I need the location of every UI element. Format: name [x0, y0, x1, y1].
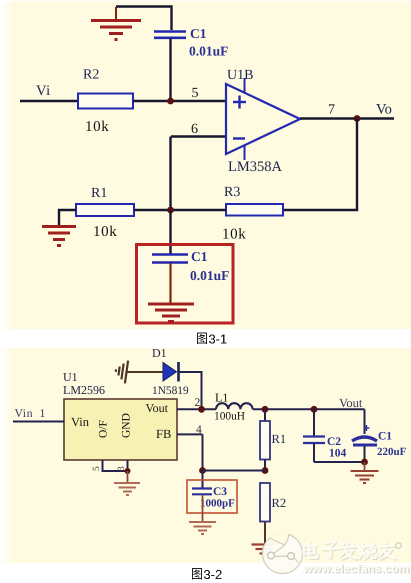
ground GND2 (R1 left)	[42, 227, 76, 246]
svg-text:www.elecfans.com: www.elecfans.com	[302, 561, 409, 575]
svg-text:Vo: Vo	[376, 102, 392, 118]
capacitor C1 (bottom)	[152, 255, 188, 263]
svg-text:7: 7	[328, 103, 335, 118]
capacitor C2	[313, 409, 315, 436]
svg-text:R2: R2	[83, 68, 99, 83]
capacitor C3	[192, 489, 212, 495]
svg-text:5: 5	[92, 466, 102, 471]
svg-text:Vout: Vout	[339, 396, 363, 410]
wire pin6 down to feedback node	[169, 137, 171, 211]
svg-text:GND: GND	[121, 413, 133, 438]
svg-text:LM2596: LM2596	[63, 383, 105, 397]
C3 red box	[187, 480, 237, 513]
junction node L1/R1	[262, 406, 269, 413]
svg-text:4: 4	[196, 424, 202, 436]
circuit 2 background	[0, 348, 411, 563]
junction node pin2	[198, 406, 205, 413]
pin 2 wire from Vout	[177, 408, 216, 410]
wire R2 to op-amp pin5	[133, 100, 226, 102]
junction node pin5	[167, 98, 174, 105]
wire D1 to pin2 node	[180, 372, 202, 409]
svg-text:R3: R3	[224, 185, 240, 200]
resistor R2 (vertical)	[260, 483, 270, 522]
svg-text:10k: 10k	[85, 119, 109, 135]
svg-text:10k: 10k	[222, 227, 246, 243]
ground GND8 (C1/C2)	[351, 471, 379, 483]
resistor R1	[76, 204, 134, 216]
pin 4 FB wire	[177, 433, 203, 435]
svg-text:O/F: O/F	[98, 420, 110, 438]
output wire pin7 to Vo	[300, 117, 394, 119]
resistor R3	[226, 204, 283, 216]
jpeg white streak artifact	[138, 252, 145, 304]
circuit 1 background	[0, 0, 411, 329]
svg-text:FB: FB	[156, 427, 171, 441]
svg-text:104: 104	[329, 448, 347, 460]
wire down to C3	[202, 471, 204, 489]
svg-text:10k: 10k	[93, 224, 117, 240]
svg-text:C1: C1	[190, 26, 207, 41]
svg-text:C2: C2	[327, 436, 341, 448]
junction node R1/R2/FB	[262, 467, 269, 474]
wire pin6	[171, 135, 226, 137]
svg-text:1: 1	[40, 406, 46, 420]
svg-text:100uH: 100uH	[214, 411, 245, 423]
capacitor C1 (top)	[154, 32, 186, 38]
junction node C2	[311, 406, 318, 413]
ground GND7 (R2)	[252, 545, 277, 558]
svg-text:R1: R1	[272, 432, 287, 446]
wire R1 to node	[134, 209, 171, 211]
svg-text:1000pF: 1000pF	[200, 498, 235, 510]
red highlight box	[137, 245, 234, 324]
svg-text:1N5819: 1N5819	[152, 385, 189, 397]
junction node output	[354, 115, 361, 122]
IC bottom pin stubs 5,3	[103, 460, 128, 471]
svg-text:C1: C1	[378, 431, 392, 443]
svg-text:220uF: 220uF	[377, 446, 407, 458]
junction node FB/C3	[199, 467, 206, 474]
caption 3-1	[197, 333, 207, 345]
ground GND4 (IC)	[114, 483, 140, 495]
svg-text:R1: R1	[91, 186, 107, 201]
watermark text dianzifashaoyou	[302, 541, 397, 561]
caption 3-2	[192, 568, 202, 580]
ground GND1 top	[91, 21, 141, 40]
resistor R1 (vertical)	[264, 409, 266, 421]
junction node feedback	[167, 207, 174, 214]
wire node down to C1 bottom	[169, 210, 171, 254]
svg-text:5: 5	[192, 86, 199, 101]
watermark registered mark	[396, 543, 402, 549]
svg-text:D1: D1	[152, 346, 167, 360]
capacitor C1 (electrolytic)	[364, 409, 366, 434]
svg-text:LM358A: LM358A	[228, 159, 283, 175]
wire R1 left to ground	[59, 210, 76, 225]
svg-text:U1: U1	[63, 370, 78, 384]
bottom rail C2-C1	[314, 461, 365, 463]
wire gnd to C1 top	[116, 7, 172, 31]
svg-text:Vin: Vin	[15, 406, 34, 420]
ground GND5 (D1, slanted)	[114, 359, 128, 383]
svg-text:0.01uF: 0.01uF	[189, 44, 228, 59]
svg-text:Vout: Vout	[146, 401, 169, 415]
wire C1 bottom to ground	[169, 263, 171, 303]
svg-text:6: 6	[191, 122, 198, 137]
svg-text:C1: C1	[191, 249, 208, 264]
junction node IC ground	[125, 468, 131, 474]
wire L1 to Vout	[253, 408, 365, 410]
wire gnd to D1	[127, 371, 163, 373]
svg-text:R2: R2	[272, 496, 287, 510]
junction node C1 gnd	[361, 459, 368, 466]
svg-text:U1B: U1B	[227, 68, 253, 83]
wire node to R3	[171, 209, 227, 211]
resistor R2	[78, 94, 133, 109]
op-amp U1B	[226, 84, 300, 154]
ground GND6 (C3)	[189, 522, 216, 534]
svg-text:C3: C3	[213, 486, 227, 498]
ground GND3 (in box)	[148, 304, 194, 322]
wire C1 to node 5	[169, 39, 171, 102]
svg-text:Vin: Vin	[71, 415, 90, 429]
svg-text:0.01uF: 0.01uF	[190, 268, 229, 283]
svg-text:Vi: Vi	[36, 83, 51, 99]
feedback wire down and left	[283, 119, 357, 211]
